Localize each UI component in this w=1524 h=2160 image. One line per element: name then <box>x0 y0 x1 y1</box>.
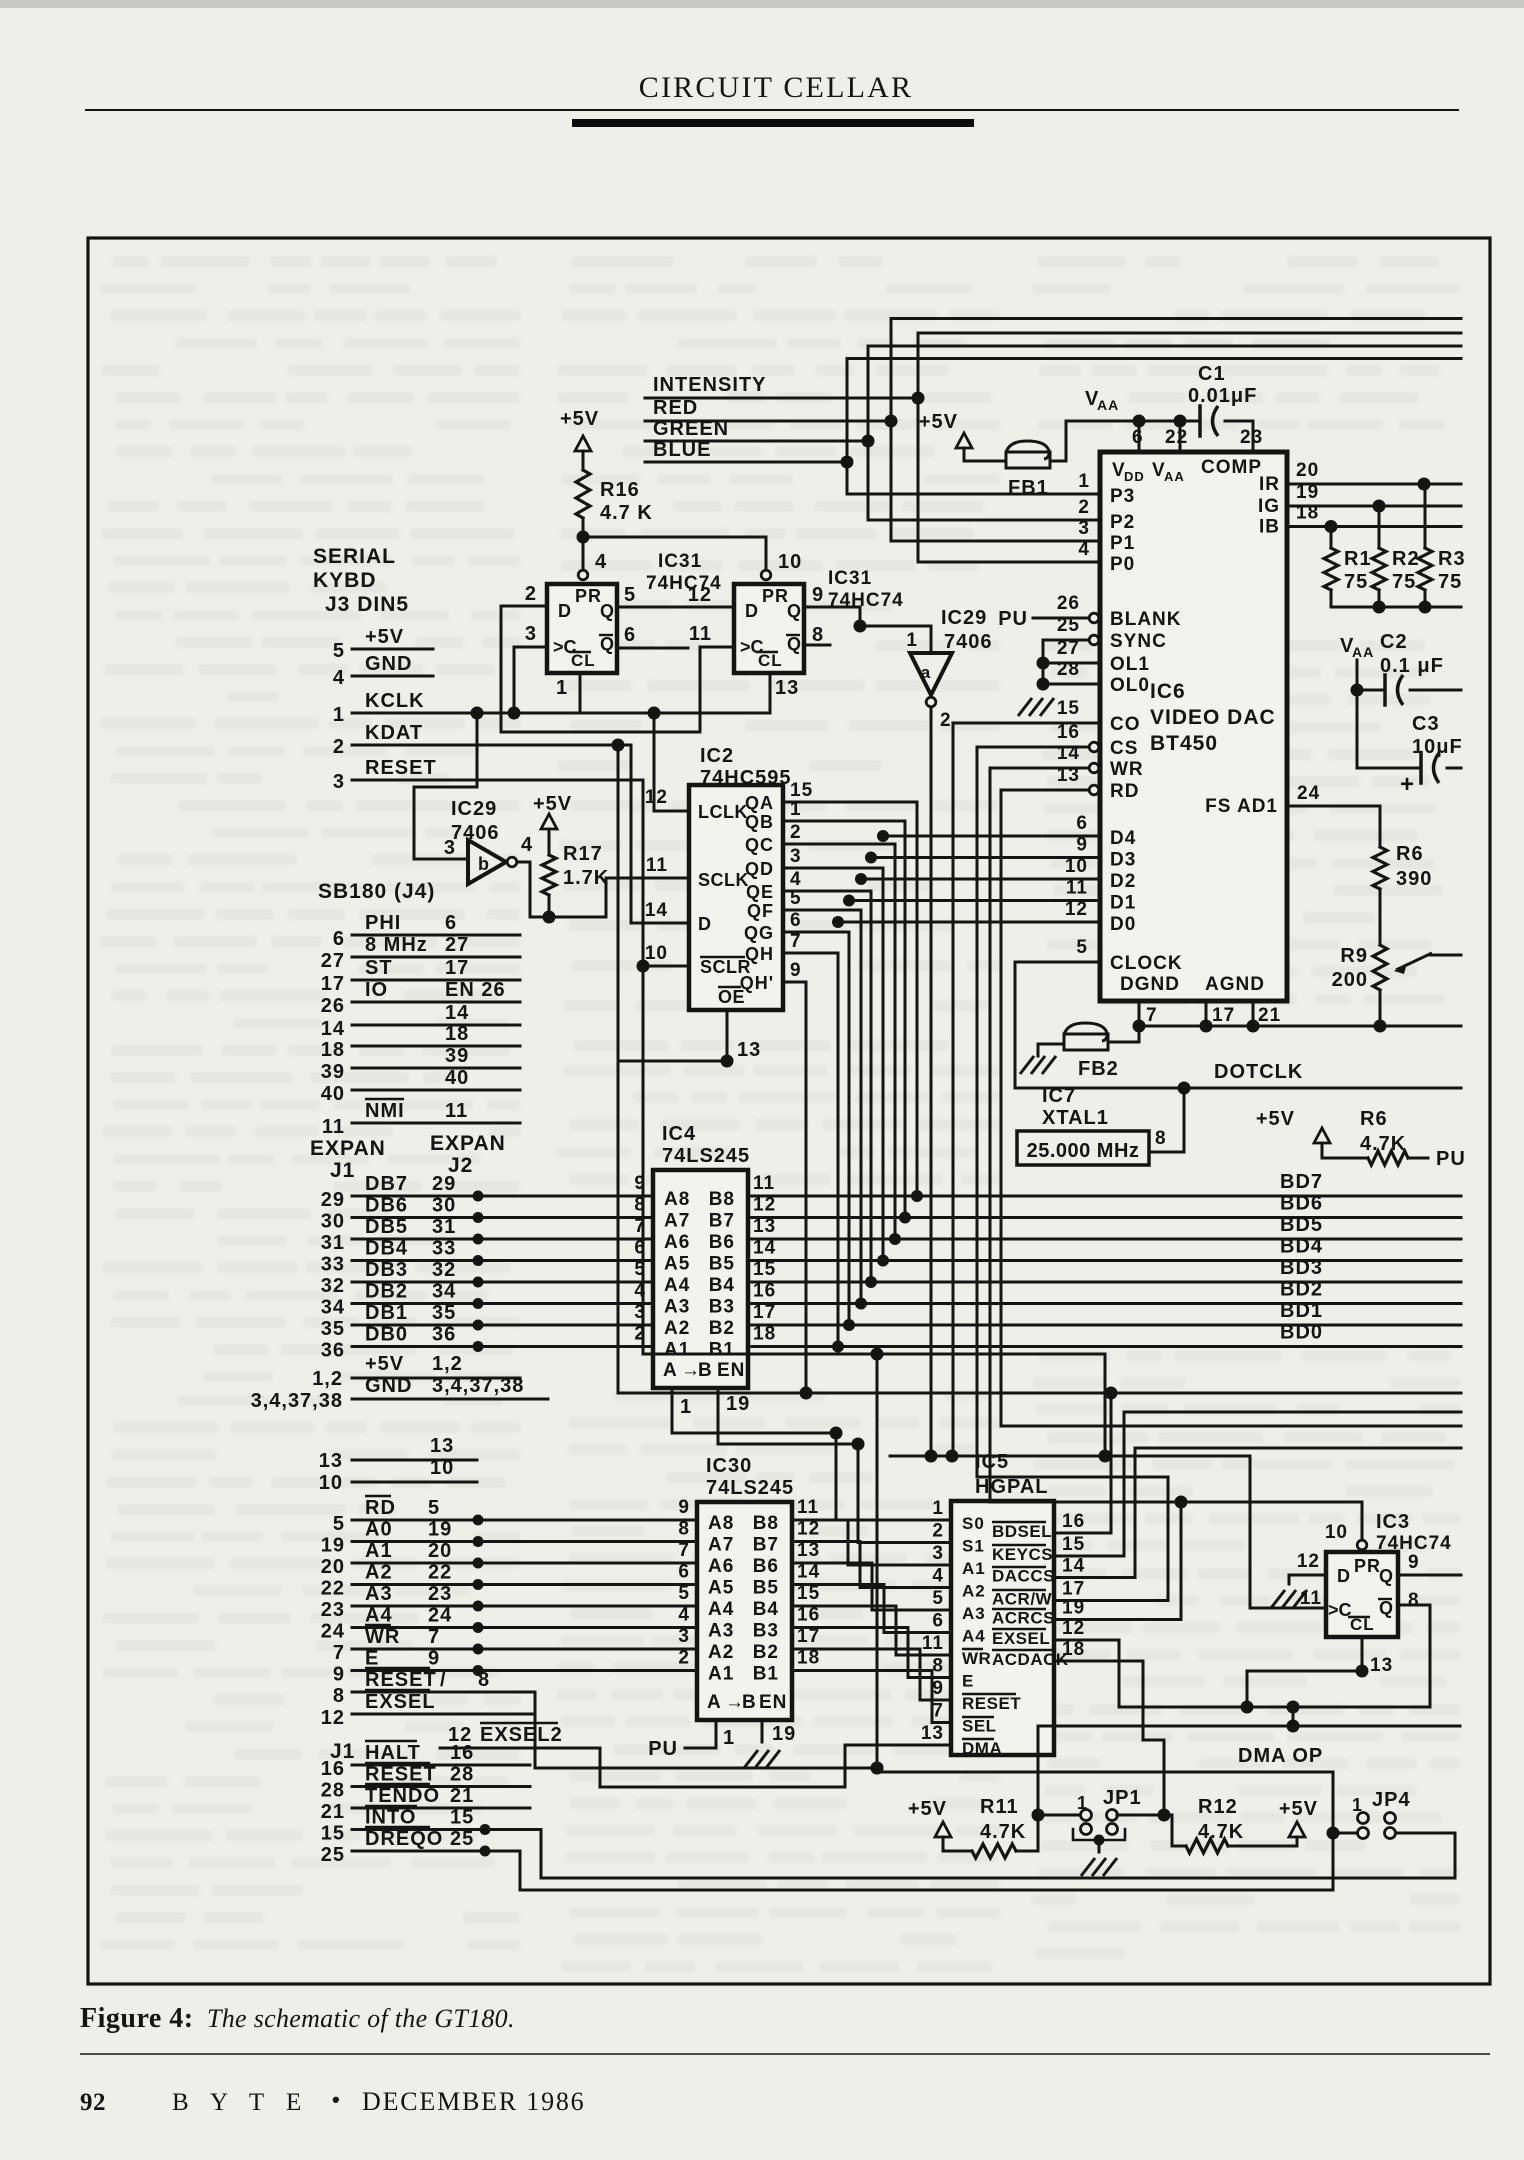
svg-text:E: E <box>962 1672 974 1691</box>
svg-text:DREQO: DREQO <box>365 1828 443 1850</box>
svg-text:+5V: +5V <box>1256 1108 1295 1130</box>
svg-text:11: 11 <box>922 1633 944 1654</box>
svg-text:34: 34 <box>432 1281 456 1303</box>
svg-text:13: 13 <box>921 1723 944 1744</box>
svg-text:7: 7 <box>333 1642 345 1664</box>
svg-text:BD4: BD4 <box>1280 1236 1323 1258</box>
svg-text:1,2: 1,2 <box>312 1368 343 1390</box>
svg-text:2: 2 <box>1078 497 1090 518</box>
svg-text:•: • <box>332 2087 341 2112</box>
svg-text:+5V: +5V <box>1279 1798 1318 1820</box>
svg-text:+5V: +5V <box>533 793 572 815</box>
svg-text:A4: A4 <box>664 1275 690 1296</box>
svg-text:DB6: DB6 <box>365 1195 408 1217</box>
svg-text:7406: 7406 <box>944 631 993 653</box>
svg-text:40: 40 <box>445 1067 469 1089</box>
svg-text:16: 16 <box>450 1742 474 1764</box>
svg-text:D1: D1 <box>1110 893 1136 914</box>
svg-text:GND: GND <box>365 1375 412 1397</box>
svg-text:IO: IO <box>365 979 388 1001</box>
svg-text:18: 18 <box>1296 503 1319 524</box>
svg-text:Q: Q <box>1379 1598 1394 1618</box>
svg-text:WR: WR <box>365 1626 400 1648</box>
svg-text:18: 18 <box>1062 1639 1085 1660</box>
svg-text:KEYCS: KEYCS <box>992 1545 1053 1564</box>
svg-text:A4: A4 <box>962 1627 986 1646</box>
svg-text:FS AD1: FS AD1 <box>1205 796 1278 817</box>
svg-text:35: 35 <box>432 1302 456 1324</box>
svg-text:DB5: DB5 <box>365 1216 408 1238</box>
svg-text:B4: B4 <box>709 1275 735 1296</box>
svg-text:KCLK: KCLK <box>365 690 425 712</box>
svg-text:FB2: FB2 <box>1078 1058 1119 1080</box>
svg-text:23: 23 <box>1240 427 1263 448</box>
svg-text:DGND: DGND <box>1120 974 1180 995</box>
svg-text:A8: A8 <box>664 1189 690 1210</box>
svg-text:PHI: PHI <box>365 912 401 934</box>
svg-text:7: 7 <box>678 1540 690 1561</box>
svg-text:2: 2 <box>525 583 537 605</box>
svg-text:IC5: IC5 <box>975 1451 1009 1473</box>
svg-text:A5: A5 <box>708 1578 734 1599</box>
svg-text:SB180 (J4): SB180 (J4) <box>318 880 435 903</box>
svg-text:13: 13 <box>1057 765 1080 786</box>
svg-text:P1: P1 <box>1110 533 1135 554</box>
svg-text:3: 3 <box>678 1626 690 1647</box>
svg-text:7: 7 <box>790 931 802 952</box>
svg-text:JP1: JP1 <box>1103 1787 1142 1809</box>
svg-text:1.7K: 1.7K <box>563 867 609 889</box>
svg-text:B6: B6 <box>753 1556 779 1577</box>
svg-text:IC31: IC31 <box>828 568 872 589</box>
svg-text:33: 33 <box>432 1238 456 1260</box>
svg-text:15: 15 <box>1062 1534 1085 1555</box>
svg-text:A4: A4 <box>365 1605 393 1627</box>
svg-text:75: 75 <box>1438 571 1462 593</box>
svg-text:23: 23 <box>428 1583 452 1605</box>
svg-text:P0: P0 <box>1110 554 1135 575</box>
svg-text:R1: R1 <box>1344 548 1372 570</box>
svg-text:5: 5 <box>333 1513 345 1535</box>
svg-text:12: 12 <box>1297 1551 1320 1572</box>
svg-text:B5: B5 <box>709 1254 735 1275</box>
svg-text:BD3: BD3 <box>1280 1257 1323 1279</box>
svg-text:8: 8 <box>1155 1128 1167 1149</box>
svg-text:8: 8 <box>932 1656 944 1677</box>
svg-text:DOTCLK: DOTCLK <box>1214 1061 1303 1083</box>
svg-text:E: E <box>365 1648 379 1670</box>
svg-text:R9: R9 <box>1340 945 1368 967</box>
svg-text:PU: PU <box>998 608 1028 630</box>
svg-text:18: 18 <box>797 1648 820 1669</box>
svg-text:4.7K: 4.7K <box>1198 1821 1244 1843</box>
svg-text:15: 15 <box>797 1583 820 1604</box>
svg-text:15: 15 <box>1057 698 1080 719</box>
svg-text:HGPAL: HGPAL <box>975 1476 1049 1498</box>
svg-text:D: D <box>558 601 572 621</box>
svg-text:4: 4 <box>790 869 802 890</box>
svg-text:11: 11 <box>797 1497 819 1518</box>
svg-text:D: D <box>745 601 759 621</box>
svg-text:S1: S1 <box>962 1537 985 1556</box>
svg-text:B8: B8 <box>709 1189 735 1210</box>
svg-text:CO: CO <box>1110 714 1141 735</box>
svg-text:36: 36 <box>432 1324 456 1346</box>
svg-text:FB1: FB1 <box>1008 477 1049 499</box>
svg-text:P2: P2 <box>1110 512 1135 533</box>
svg-text:DB4: DB4 <box>365 1238 408 1260</box>
svg-text:C2: C2 <box>1380 631 1408 653</box>
svg-text:A1: A1 <box>708 1664 734 1685</box>
svg-text:+5V: +5V <box>919 411 958 433</box>
svg-text:36: 36 <box>321 1340 345 1362</box>
svg-text:8: 8 <box>478 1669 490 1691</box>
svg-text:The schematic of the GT180.: The schematic of the GT180. <box>207 2004 515 2033</box>
svg-text:OL0: OL0 <box>1110 675 1150 696</box>
svg-text:EN: EN <box>759 1692 787 1713</box>
svg-text:A1: A1 <box>962 1559 986 1578</box>
svg-text:QD: QD <box>745 859 774 879</box>
svg-text:RESET: RESET <box>365 1669 437 1691</box>
svg-text:LCLK: LCLK <box>698 802 748 822</box>
svg-text:4: 4 <box>521 834 533 856</box>
svg-text:b: b <box>478 854 490 874</box>
svg-text:A7: A7 <box>664 1211 690 1232</box>
svg-text:A: A <box>707 1692 722 1713</box>
svg-text:+5V: +5V <box>365 1353 404 1375</box>
svg-text:13: 13 <box>737 1039 761 1061</box>
svg-text:9: 9 <box>1408 1552 1420 1573</box>
svg-text:QG: QG <box>744 923 774 943</box>
svg-text:33: 33 <box>321 1254 345 1276</box>
svg-text:BD1: BD1 <box>1280 1300 1323 1322</box>
svg-text:7: 7 <box>428 1626 440 1648</box>
svg-text:28: 28 <box>321 1780 345 1802</box>
svg-text:A8: A8 <box>708 1513 734 1534</box>
svg-text:3: 3 <box>444 837 456 859</box>
svg-text:A: A <box>663 1360 678 1381</box>
svg-text:B: B <box>698 1360 713 1381</box>
svg-text:6: 6 <box>445 912 457 934</box>
svg-text:11: 11 <box>1066 878 1088 899</box>
svg-text:EXSEL: EXSEL <box>992 1629 1050 1648</box>
svg-text:WR: WR <box>1110 759 1144 780</box>
svg-text:3,4,37,38: 3,4,37,38 <box>432 1375 524 1397</box>
svg-text:6: 6 <box>678 1562 690 1583</box>
svg-text:DB1: DB1 <box>365 1302 408 1324</box>
svg-text:COMP: COMP <box>1201 457 1262 478</box>
svg-text:B8: B8 <box>753 1513 779 1534</box>
svg-text:EXPAN: EXPAN <box>310 1137 386 1160</box>
svg-text:13: 13 <box>1370 1655 1393 1676</box>
svg-text:11: 11 <box>445 1100 468 1122</box>
svg-text:1: 1 <box>932 1498 944 1519</box>
svg-text:13: 13 <box>319 1450 343 1472</box>
svg-text:6: 6 <box>333 928 345 950</box>
svg-text:5: 5 <box>624 584 636 606</box>
svg-text:DB0: DB0 <box>365 1324 408 1346</box>
svg-text:3: 3 <box>333 771 345 793</box>
svg-text:14: 14 <box>645 900 668 921</box>
svg-text:3: 3 <box>790 846 802 867</box>
svg-text:BLANK: BLANK <box>1110 609 1182 630</box>
svg-text:1: 1 <box>556 677 568 699</box>
svg-text:R11: R11 <box>980 1796 1019 1818</box>
svg-text:+5V: +5V <box>560 408 599 430</box>
svg-text:8: 8 <box>333 1685 345 1707</box>
svg-text:31: 31 <box>321 1232 345 1254</box>
svg-text:0.1 μF: 0.1 μF <box>1380 655 1444 677</box>
svg-text:QH: QH <box>745 944 774 964</box>
svg-text:+5V: +5V <box>365 626 404 648</box>
svg-text:14: 14 <box>321 1018 345 1040</box>
svg-text:9: 9 <box>932 1678 944 1699</box>
svg-text:+: + <box>1400 771 1415 798</box>
svg-text:8: 8 <box>1408 1590 1420 1611</box>
svg-text:A3: A3 <box>664 1297 690 1318</box>
svg-text:9: 9 <box>333 1664 345 1686</box>
svg-text:C1: C1 <box>1198 363 1226 385</box>
svg-text:5: 5 <box>678 1583 690 1604</box>
svg-text:20: 20 <box>1296 460 1319 481</box>
svg-text:CL: CL <box>758 651 783 670</box>
svg-text:Q: Q <box>1379 1566 1394 1586</box>
svg-text:IB: IB <box>1259 517 1280 538</box>
svg-text:BD7: BD7 <box>1280 1171 1323 1193</box>
svg-text:17: 17 <box>753 1302 776 1323</box>
svg-text:C3: C3 <box>1412 713 1440 735</box>
svg-text:J1: J1 <box>330 1159 355 1182</box>
svg-text:28: 28 <box>450 1764 474 1786</box>
svg-text:B7: B7 <box>753 1535 779 1556</box>
svg-text:DACCS: DACCS <box>992 1567 1055 1586</box>
svg-text:QE: QE <box>746 882 774 902</box>
svg-text:AA: AA <box>1164 469 1185 484</box>
svg-text:74LS245: 74LS245 <box>662 1145 750 1167</box>
svg-text:R3: R3 <box>1438 548 1466 570</box>
svg-text:19: 19 <box>1296 482 1319 503</box>
svg-text:27: 27 <box>321 950 345 972</box>
svg-text:Q: Q <box>600 634 615 654</box>
svg-text:7: 7 <box>1146 1005 1158 1026</box>
svg-text:5: 5 <box>932 1588 944 1609</box>
svg-text:32: 32 <box>432 1259 456 1281</box>
svg-text:29: 29 <box>432 1173 456 1195</box>
svg-text:13: 13 <box>753 1216 776 1237</box>
svg-text:A2: A2 <box>962 1582 986 1601</box>
svg-text:12: 12 <box>321 1707 345 1729</box>
svg-text:18: 18 <box>753 1324 776 1345</box>
svg-text:25: 25 <box>450 1828 474 1850</box>
svg-text:16: 16 <box>321 1758 345 1780</box>
svg-text:+5V: +5V <box>908 1798 947 1820</box>
svg-text:R6: R6 <box>1396 843 1424 865</box>
svg-text:390: 390 <box>1396 868 1432 890</box>
svg-text:11: 11 <box>753 1173 775 1194</box>
svg-text:A3: A3 <box>365 1583 393 1605</box>
svg-text:25: 25 <box>1057 615 1080 636</box>
svg-text:18: 18 <box>321 1039 345 1061</box>
svg-text:16: 16 <box>797 1605 820 1626</box>
svg-text:74LS245: 74LS245 <box>706 1477 794 1499</box>
svg-text:11: 11 <box>646 855 668 876</box>
svg-text:14: 14 <box>753 1238 776 1259</box>
svg-text:10: 10 <box>1065 856 1088 877</box>
svg-text:IC29: IC29 <box>941 607 987 629</box>
svg-text:PR: PR <box>762 586 789 606</box>
svg-text:4.7K: 4.7K <box>980 1821 1026 1843</box>
svg-text:1,2: 1,2 <box>432 1353 463 1375</box>
svg-text:6: 6 <box>932 1611 944 1632</box>
svg-text:24: 24 <box>321 1621 345 1643</box>
svg-text:a: a <box>921 663 931 682</box>
svg-text:ACRCS: ACRCS <box>992 1609 1055 1628</box>
svg-text:D0: D0 <box>1110 914 1136 935</box>
svg-text:IC29: IC29 <box>451 798 497 820</box>
svg-text:QB: QB <box>745 812 774 832</box>
svg-text:12: 12 <box>1062 1618 1085 1639</box>
svg-text:39: 39 <box>445 1045 469 1067</box>
svg-text:Q: Q <box>787 601 802 621</box>
svg-text:P3: P3 <box>1110 486 1135 507</box>
svg-text:B2: B2 <box>709 1318 735 1339</box>
svg-text:B1: B1 <box>709 1340 735 1361</box>
svg-text:25.000 MHz: 25.000 MHz <box>1027 1140 1140 1162</box>
svg-text:IG: IG <box>1258 496 1280 517</box>
svg-text:4: 4 <box>932 1566 944 1587</box>
svg-text:14: 14 <box>445 1002 469 1024</box>
svg-text:DECEMBER 1986: DECEMBER 1986 <box>362 2087 585 2116</box>
svg-text:31: 31 <box>432 1216 456 1238</box>
svg-text:QC: QC <box>745 835 774 855</box>
svg-text:3: 3 <box>932 1543 944 1564</box>
svg-text:27: 27 <box>1057 638 1080 659</box>
svg-text:26: 26 <box>1057 593 1080 614</box>
svg-text:DMA: DMA <box>962 1739 1002 1758</box>
svg-text:22: 22 <box>428 1562 452 1584</box>
svg-text:IC3: IC3 <box>1376 1511 1410 1533</box>
svg-text:KDAT: KDAT <box>365 722 423 744</box>
svg-text:DMA OP: DMA OP <box>1238 1745 1323 1767</box>
svg-text:9: 9 <box>812 584 824 606</box>
svg-text:B5: B5 <box>753 1578 779 1599</box>
svg-text:B: B <box>742 1692 757 1713</box>
svg-text:26: 26 <box>321 995 345 1017</box>
svg-text:29: 29 <box>321 1189 345 1211</box>
svg-text:12: 12 <box>753 1195 776 1216</box>
svg-text:SEL: SEL <box>962 1717 997 1736</box>
svg-text:Q: Q <box>787 634 802 654</box>
svg-text:75: 75 <box>1392 571 1416 593</box>
svg-text:A1: A1 <box>365 1540 393 1562</box>
svg-text:XTAL1: XTAL1 <box>1042 1107 1109 1129</box>
svg-text:CIRCUIT CELLAR: CIRCUIT CELLAR <box>639 71 913 104</box>
svg-text:B4: B4 <box>753 1599 779 1620</box>
svg-text:16: 16 <box>753 1281 776 1302</box>
svg-text:13: 13 <box>797 1540 820 1561</box>
svg-text:IC2: IC2 <box>700 745 734 767</box>
svg-text:6: 6 <box>790 910 802 931</box>
svg-text:RESET: RESET <box>365 757 437 779</box>
svg-text:39: 39 <box>321 1061 345 1083</box>
svg-text:7406: 7406 <box>451 822 500 844</box>
svg-text:30: 30 <box>321 1211 345 1233</box>
svg-text:S0: S0 <box>962 1514 985 1533</box>
svg-text:15: 15 <box>450 1807 474 1829</box>
svg-text:PU: PU <box>1436 1148 1466 1170</box>
svg-text:DB3: DB3 <box>365 1259 408 1281</box>
svg-text:QH': QH' <box>740 973 774 993</box>
svg-text:J3 DIN5: J3 DIN5 <box>325 593 409 616</box>
svg-text:10: 10 <box>1325 1522 1348 1543</box>
svg-text:CL: CL <box>571 651 596 670</box>
svg-text:KYBD: KYBD <box>313 569 377 592</box>
svg-text:D4: D4 <box>1110 828 1136 849</box>
svg-text:IC6: IC6 <box>1150 680 1186 703</box>
svg-text:QA: QA <box>745 793 774 813</box>
svg-text:2: 2 <box>932 1521 944 1542</box>
svg-text:32: 32 <box>321 1275 345 1297</box>
svg-text:EN: EN <box>717 1360 745 1381</box>
svg-text:B2: B2 <box>753 1642 779 1663</box>
svg-text:2: 2 <box>678 1648 690 1669</box>
svg-text:D: D <box>698 914 712 934</box>
svg-text:SYNC: SYNC <box>1110 631 1167 652</box>
svg-text:3: 3 <box>525 623 537 645</box>
svg-text:11: 11 <box>1300 1588 1322 1609</box>
svg-text:10: 10 <box>319 1472 343 1494</box>
svg-text:12: 12 <box>688 584 712 606</box>
svg-text:A2: A2 <box>664 1318 690 1339</box>
svg-text:>C: >C <box>1328 1600 1352 1620</box>
svg-text:4: 4 <box>595 551 607 573</box>
svg-text:21: 21 <box>321 1801 345 1823</box>
svg-text:15: 15 <box>321 1823 345 1845</box>
svg-text:5: 5 <box>333 640 345 662</box>
svg-text:40: 40 <box>321 1083 345 1105</box>
svg-text:OL1: OL1 <box>1110 654 1150 675</box>
svg-text:AA: AA <box>1352 644 1374 660</box>
svg-text:IR: IR <box>1259 474 1280 495</box>
svg-text:TENDO: TENDO <box>365 1785 440 1807</box>
svg-text:30: 30 <box>432 1195 456 1217</box>
svg-text:12: 12 <box>797 1519 820 1540</box>
svg-text:0.01μF: 0.01μF <box>1188 385 1257 407</box>
svg-text:3,4,37,38: 3,4,37,38 <box>251 1390 343 1412</box>
svg-text:15: 15 <box>790 780 813 801</box>
svg-text:10: 10 <box>645 943 668 964</box>
svg-text:EXSEL: EXSEL <box>365 1691 436 1713</box>
svg-text:D2: D2 <box>1110 871 1136 892</box>
svg-text:DB7: DB7 <box>365 1173 408 1195</box>
svg-text:200: 200 <box>1332 969 1368 991</box>
svg-text:24: 24 <box>428 1605 452 1627</box>
svg-text:6: 6 <box>624 624 636 646</box>
svg-text:R12: R12 <box>1198 1796 1238 1818</box>
svg-text:A6: A6 <box>708 1556 734 1577</box>
svg-text:13: 13 <box>775 677 799 699</box>
svg-text:A6: A6 <box>664 1232 690 1253</box>
svg-text:JP4: JP4 <box>1372 1789 1411 1811</box>
svg-text:11: 11 <box>322 1116 345 1138</box>
svg-text:3: 3 <box>1078 518 1090 539</box>
svg-text:D: D <box>1337 1566 1351 1586</box>
svg-text:AA: AA <box>1097 397 1119 413</box>
svg-text:19: 19 <box>428 1519 452 1541</box>
svg-text:4.7 K: 4.7 K <box>600 502 653 524</box>
svg-text:VIDEO DAC: VIDEO DAC <box>1150 706 1276 729</box>
svg-text:BD0: BD0 <box>1280 1322 1323 1344</box>
